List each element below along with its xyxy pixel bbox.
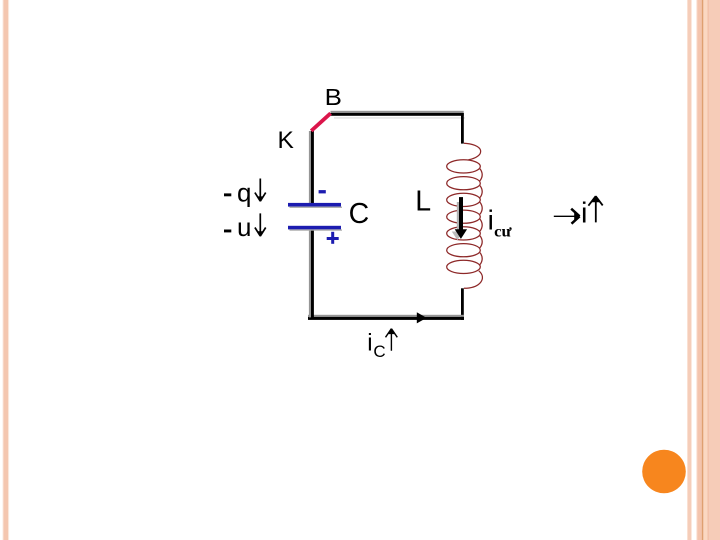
label i_cu (induced current)	[488, 205, 512, 241]
induced-current arrow (black, down) through coil with gray shadow	[452, 197, 467, 240]
wire: left vertical lower (capacitor bottom plate to bottom wire)	[309, 229, 314, 317]
svg-text:i: i	[581, 198, 587, 230]
label i_C with up arrow (capacitor current, below bottom wire)	[367, 329, 397, 361]
svg-text:B: B	[325, 84, 342, 110]
inductor L coil turn 7	[447, 260, 481, 273]
inductor L coil turn 2	[447, 177, 481, 190]
plus polarity mark on bottom plate	[327, 232, 339, 244]
capacitor C top plate	[288, 203, 342, 208]
label "- q" with down arrow	[224, 177, 266, 207]
wire: bottom horizontal	[308, 315, 464, 320]
label "- u" with down arrow	[224, 212, 266, 242]
wire: left vertical upper (switch to capacitor top plate)	[309, 131, 314, 203]
inductor L coil turn 5	[447, 227, 481, 240]
label "->i^" at right	[554, 196, 603, 230]
inductor L coil top hook	[464, 143, 481, 160]
svg-text:K: K	[278, 127, 295, 154]
wire: right vertical upper (corner to coil)	[461, 113, 464, 144]
inductor L coil turn 6	[447, 244, 481, 257]
svg-text:cư: cư	[494, 223, 512, 240]
inductor L coil right connecting arcs	[480, 169, 482, 265]
svg-text:i: i	[367, 330, 372, 357]
svg-text:C: C	[373, 342, 385, 361]
wire: top horizontal (node B to top-right corner)	[331, 111, 466, 119]
svg-text:u: u	[237, 212, 251, 242]
svg-text:C: C	[349, 198, 370, 230]
switch K blade (open, crimson)	[311, 113, 330, 131]
inductor L coil turn 4	[447, 210, 481, 223]
capacitor C bottom plate	[288, 226, 342, 231]
minus polarity mark on top plate	[319, 190, 326, 193]
inductor L coil turn 1	[447, 160, 481, 173]
svg-text:q: q	[237, 177, 251, 207]
svg-text:i: i	[488, 205, 494, 236]
arrowhead iC on bottom wire	[417, 312, 427, 323]
svg-text:L: L	[415, 186, 431, 218]
inductor L coil turn 3	[447, 193, 481, 206]
inductor L coil bottom hook	[464, 271, 483, 289]
wire: right vertical lower (coil to bottom-right corner)	[461, 288, 464, 320]
